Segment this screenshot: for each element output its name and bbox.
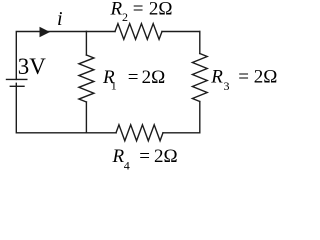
svg-text:4: 4 bbox=[124, 159, 130, 171]
svg-text:R: R bbox=[112, 146, 125, 167]
wire right upper from top-right corner to R3 bbox=[199, 32, 201, 54]
svg-text:2Ω: 2Ω bbox=[142, 67, 166, 88]
resistor R4 bbox=[116, 125, 163, 141]
svg-text:2Ω: 2Ω bbox=[149, 0, 173, 20]
wire top-right from R2 to top-right corner bbox=[162, 31, 200, 33]
wire right lower from R3 to bottom-right corner bbox=[199, 102, 201, 133]
battery V1 negative plate (short) bbox=[10, 85, 24, 87]
svg-text:3: 3 bbox=[224, 79, 230, 93]
svg-text:2Ω: 2Ω bbox=[254, 66, 278, 87]
svg-text:R: R bbox=[210, 66, 223, 87]
label R4 = 2 ohm bbox=[112, 146, 178, 173]
svg-text:1: 1 bbox=[111, 79, 117, 93]
battery V1 positive plate (long) bbox=[7, 78, 27, 80]
wire middle branch lower from R1 to bottom junction bbox=[85, 102, 87, 133]
resistor R2 bbox=[115, 24, 162, 40]
wire bottom-right from corner to R4 bbox=[163, 132, 200, 134]
label R3 = 2 ohm bbox=[210, 66, 277, 92]
label R1 = 2 ohm bbox=[102, 67, 165, 93]
svg-text:3V: 3V bbox=[18, 54, 47, 79]
svg-text:=: = bbox=[133, 0, 144, 20]
wire bottom-left from R4 to battery minus bbox=[16, 83, 116, 133]
svg-text:=: = bbox=[128, 67, 139, 88]
current arrow i bbox=[40, 27, 51, 37]
label R2 = 2 ohm bbox=[110, 0, 173, 24]
svg-text:2Ω: 2Ω bbox=[154, 146, 178, 167]
wire top-left from battery plus up and right to junction bbox=[16, 32, 86, 80]
svg-text:2: 2 bbox=[122, 10, 128, 24]
resistor R3 bbox=[192, 54, 207, 102]
svg-text:R: R bbox=[110, 0, 123, 20]
svg-text:i: i bbox=[57, 8, 63, 30]
svg-text:=: = bbox=[238, 66, 249, 87]
wire top from junction to R2 bbox=[86, 31, 115, 33]
wire middle branch upper from junction to R1 bbox=[85, 32, 87, 56]
svg-text:=: = bbox=[139, 146, 150, 167]
resistor R1 bbox=[79, 55, 94, 102]
